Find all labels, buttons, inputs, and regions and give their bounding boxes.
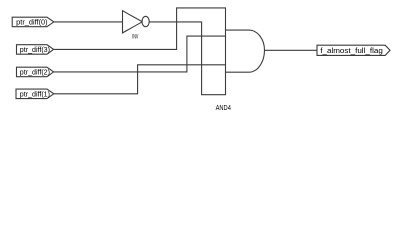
inverter INV bubble [142,16,149,26]
wire: ptr_diff(0) to inverter input [54,21,123,23]
svg-text:ptr_diff(3): ptr_diff(3) [20,47,50,54]
wire A: inverter output down and under to AND4 bottom input [149,22,225,95]
output wire [265,49,318,51]
svg-text:f_almost_full_flag: f_almost_full_flag [320,48,383,55]
svg-text:AND4: AND4 [216,105,231,112]
input flag ptr_diff(1) [16,89,54,99]
wire C: ptr_diff(2) to AND4 input 2 [54,36,226,72]
output flag f_almost_full_flag [317,45,390,55]
wire D: ptr_diff(1) to AND4 input 3 [54,65,226,94]
AND4 gate body [226,30,265,72]
svg-text:ptr_diff(2): ptr_diff(2) [20,70,50,77]
input flag ptr_diff(3) [17,45,54,55]
wire B: ptr_diff(3) up and over the top to AND4 top input [54,8,226,50]
input flag ptr_diff(0) [12,17,54,27]
svg-text:INV: INV [132,33,139,40]
svg-text:ptr_diff(0): ptr_diff(0) [16,20,47,27]
svg-text:ptr_diff(1): ptr_diff(1) [20,91,50,98]
input flag ptr_diff(2) [17,67,54,77]
inverter INV triangle [123,11,143,33]
